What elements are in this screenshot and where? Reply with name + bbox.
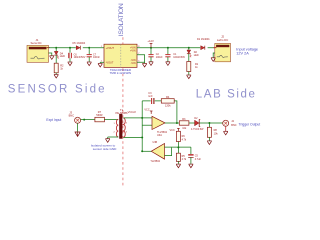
svg-text:4: 4 (126, 123, 128, 125)
svg-text:BNC: BNC (69, 114, 75, 118)
svg-text:VCC: VCC (144, 108, 149, 111)
svg-text:10k: 10k (182, 127, 187, 130)
svg-text:PE-68386: PE-68386 (116, 111, 128, 115)
svg-text:4.7uF: 4.7uF (195, 158, 202, 161)
svg-text:D5 1N4004: D5 1N4004 (73, 42, 86, 45)
svg-text:BNC: BNC (231, 124, 236, 127)
svg-text:3: 3 (126, 132, 128, 134)
svg-text:4.7Vz/0.5W: 4.7Vz/0.5W (191, 128, 204, 131)
svg-text:VCC/2: VCC/2 (128, 110, 137, 114)
svg-text:LED: LED (60, 54, 65, 58)
svg-text:100nF/50V: 100nF/50V (74, 56, 86, 59)
svg-text:+12V: +12V (147, 39, 154, 43)
svg-text:sensor side GND: sensor side GND (93, 147, 117, 151)
svg-text:12V 2A: 12V 2A (236, 52, 249, 56)
svg-text:J4: J4 (231, 120, 234, 123)
svg-text:-VIN: -VIN (131, 62, 136, 65)
svg-text:VCC: VCC (170, 129, 175, 132)
svg-text:TMR 2-1211WIN: TMR 2-1211WIN (110, 71, 131, 75)
svg-text:1nF: 1nF (148, 95, 153, 98)
svg-text:D2: D2 (194, 117, 198, 120)
svg-text:Expt Input: Expt Input (46, 118, 61, 122)
svg-text:Trigger Output: Trigger Output (239, 122, 261, 126)
svg-text:SENSOR Side: SENSOR Side (8, 84, 107, 96)
svg-text:Sens DC: Sens DC (31, 41, 42, 45)
svg-text:100nF: 100nF (156, 56, 163, 59)
svg-text:LAB Side: LAB Side (196, 89, 257, 101)
svg-text:10k: 10k (214, 133, 219, 136)
svg-text:R4: R4 (166, 95, 170, 99)
svg-text:4.7k: 4.7k (182, 158, 187, 161)
svg-text:R3: R3 (182, 118, 186, 121)
svg-text:560R: 560R (96, 113, 102, 117)
svg-text:LED: LED (194, 54, 199, 57)
svg-text:2: 2 (114, 132, 116, 134)
svg-text:D1 1N4001: D1 1N4001 (197, 38, 210, 41)
svg-text:100nF/50V: 100nF/50V (173, 56, 185, 59)
svg-text:100nF: 100nF (93, 56, 100, 59)
svg-text:1: 1 (114, 123, 116, 125)
svg-text:Lab's DC: Lab's DC (217, 38, 228, 42)
svg-text:120k: 120k (165, 103, 171, 107)
svg-text:1k: 1k (195, 66, 198, 69)
svg-text:ISOLATION: ISOLATION (118, 3, 125, 36)
svg-text:+VOUT: +VOUT (106, 47, 115, 50)
svg-text:-VOUT: -VOUT (106, 61, 114, 64)
svg-text:U3B: U3B (153, 141, 158, 144)
svg-text:U3A: U3A (157, 134, 162, 137)
svg-text:4.7k: 4.7k (182, 138, 187, 141)
svg-text:TLV3502: TLV3502 (150, 160, 160, 163)
svg-text:+VIN: +VIN (130, 49, 136, 52)
